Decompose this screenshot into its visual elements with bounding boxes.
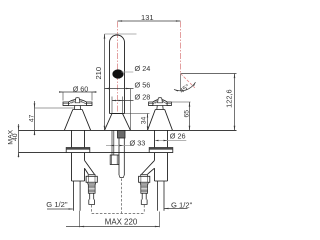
svg-text:MAX 220: MAX 220 [105, 218, 138, 227]
svg-text:65: 65 [183, 110, 190, 118]
svg-text:G 1/2": G 1/2" [171, 200, 193, 209]
svg-text:40: 40 [12, 133, 19, 141]
svg-text:Ø 24: Ø 24 [135, 64, 151, 73]
svg-text:122,6: 122,6 [225, 89, 234, 108]
svg-text:G 1/2": G 1/2" [46, 200, 68, 209]
svg-text:Ø 28: Ø 28 [135, 92, 151, 101]
svg-text:47: 47 [29, 114, 36, 122]
svg-text:34: 34 [140, 117, 147, 125]
svg-text:Ø 33: Ø 33 [130, 138, 146, 147]
svg-text:131: 131 [141, 13, 154, 22]
svg-text:Ø 26: Ø 26 [170, 132, 186, 141]
svg-text:210: 210 [94, 67, 103, 80]
svg-text:Ø 60: Ø 60 [73, 84, 89, 93]
svg-text:Ø 56: Ø 56 [135, 81, 151, 90]
